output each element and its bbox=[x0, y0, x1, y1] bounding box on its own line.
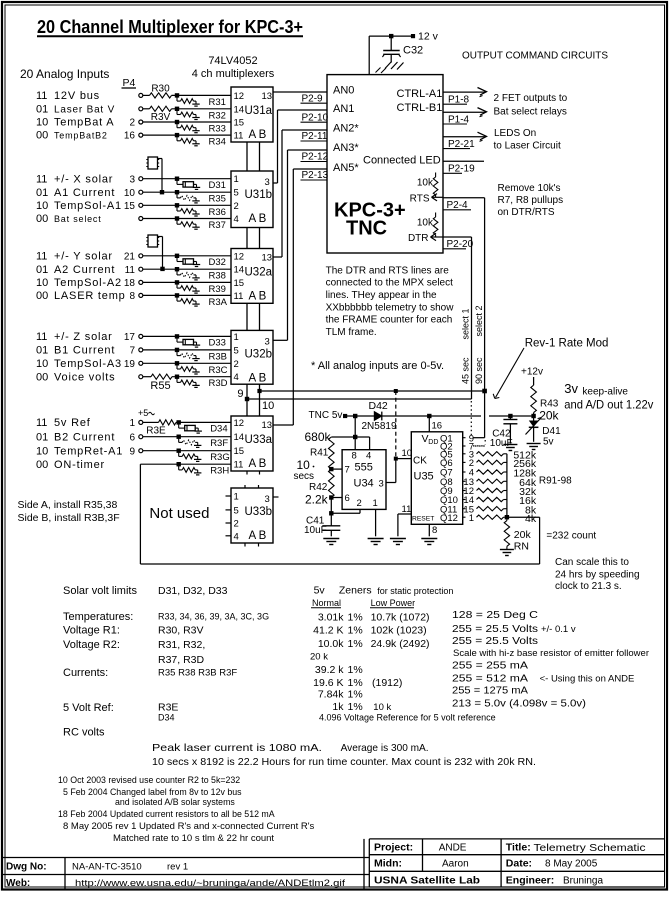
svg-text:R32: R32 bbox=[209, 110, 226, 121]
svg-text:5v Ref: 5v Ref bbox=[54, 417, 91, 429]
input terminal + wire bbox=[139, 93, 231, 98]
svg-text:16: 16 bbox=[432, 421, 443, 432]
svg-text:U31b: U31b bbox=[245, 189, 273, 201]
svg-text:20k: 20k bbox=[539, 409, 559, 423]
ground under C41 bbox=[323, 539, 339, 545]
svg-text:15: 15 bbox=[124, 201, 136, 212]
svg-text:11: 11 bbox=[36, 331, 47, 343]
svg-text:5v: 5v bbox=[314, 585, 326, 597]
svg-text:R3C: R3C bbox=[209, 365, 228, 376]
revision history bbox=[58, 775, 315, 844]
wire CTRL-B1 out / net label P1-4 bbox=[443, 108, 487, 126]
svg-text:102k (1023): 102k (1023) bbox=[371, 625, 427, 637]
svg-text:10.7k (1072): 10.7k (1072) bbox=[371, 612, 430, 624]
svg-text:R3E: R3E bbox=[146, 425, 166, 436]
node: select bus pin 10 junction bbox=[257, 389, 274, 412]
chassis ground under C32 bbox=[376, 62, 404, 74]
svg-text:11: 11 bbox=[234, 291, 244, 302]
title: 20 Channel Multiplexer for KPC-3+ bbox=[37, 17, 303, 37]
svg-text:17: 17 bbox=[124, 332, 136, 343]
svg-text:RESET: RESET bbox=[412, 515, 434, 522]
svg-text:D32: D32 bbox=[209, 257, 226, 268]
svg-text:secs: secs bbox=[294, 471, 315, 482]
wire VDD pin 16 bbox=[427, 414, 442, 432]
svg-text:Title:: Title: bbox=[506, 842, 531, 854]
svg-text:1: 1 bbox=[129, 418, 135, 429]
svg-text:R3G: R3G bbox=[210, 452, 230, 463]
svg-text:Solar volt limits: Solar volt limits bbox=[63, 585, 137, 597]
resistor R38 (x-connect option, shunt) bbox=[175, 267, 226, 282]
input label 11 +/- X solar bbox=[36, 173, 113, 185]
svg-text:2: 2 bbox=[129, 118, 135, 129]
capacitor C42 10uF bbox=[490, 414, 518, 449]
ground under U35 pin 8 bbox=[421, 539, 437, 545]
svg-text:P2-13: P2-13 bbox=[302, 170, 329, 181]
svg-text:R37, R3D: R37, R3D bbox=[158, 654, 205, 666]
svg-text:9: 9 bbox=[237, 388, 243, 400]
svg-text:5 Volt Ref:: 5 Volt Ref: bbox=[63, 702, 114, 714]
svg-text:ANDE: ANDE bbox=[439, 843, 467, 854]
wire CTRL-A1 out / net label P1-8 bbox=[443, 88, 487, 106]
net label P2-13 bbox=[301, 170, 329, 181]
svg-text:R31: R31 bbox=[209, 97, 226, 108]
svg-text:4 ch multiplexers: 4 ch multiplexers bbox=[192, 68, 275, 80]
svg-text:4: 4 bbox=[234, 214, 239, 225]
svg-text:4.096 Voltage Reference for 5: 4.096 Voltage Reference for 5 volt refer… bbox=[319, 713, 496, 723]
svg-text:10: 10 bbox=[36, 445, 48, 457]
svg-text:B2 Current: B2 Current bbox=[54, 431, 115, 443]
note: side A/B install bbox=[18, 499, 120, 524]
input terminal + wire bbox=[139, 203, 231, 207]
svg-text:11: 11 bbox=[36, 173, 47, 185]
svg-text:+5: +5 bbox=[138, 408, 148, 418]
svg-text:2: 2 bbox=[234, 519, 239, 530]
input terminal + wire bbox=[139, 293, 231, 297]
note: DTR and RTS explanation bbox=[326, 265, 455, 338]
title block text bbox=[6, 842, 646, 890]
svg-text:keep-alive: keep-alive bbox=[582, 386, 628, 397]
output Q5 pin 3 bbox=[440, 450, 474, 461]
svg-text:3: 3 bbox=[265, 494, 270, 505]
wire LED out / net label P2-21 bbox=[443, 132, 487, 150]
svg-text:P4: P4 bbox=[123, 77, 136, 89]
svg-text:10 Oct 2003 revised use counte: 10 Oct 2003 revised use counter R2 to 5k… bbox=[58, 775, 240, 785]
resistor R41 680k bbox=[305, 430, 335, 469]
pin label DTR with arrow bbox=[408, 233, 443, 244]
input label 00 ON-timer bbox=[36, 459, 105, 471]
wire Connected LED / net label P2-19 bbox=[443, 161, 484, 174]
svg-text:Rev-1 Rate Mod: Rev-1 Rate Mod bbox=[525, 338, 609, 350]
svg-text:4k: 4k bbox=[525, 513, 537, 525]
label LEDS On / to Laser Circuit bbox=[494, 128, 561, 152]
temp sensor IC (X solar group) bbox=[146, 157, 164, 194]
node R43/D41 bbox=[531, 414, 535, 418]
input label 00 Bat select bbox=[36, 213, 102, 225]
wire U32b pin3 to AN3* bbox=[273, 150, 327, 340]
zener diode D34 (shunt to ground) bbox=[177, 420, 228, 434]
svg-text:7: 7 bbox=[129, 346, 135, 357]
output Q12 pin 1 bbox=[440, 513, 474, 524]
svg-text:00: 00 bbox=[36, 290, 48, 302]
input label 01 B2 Current bbox=[36, 431, 115, 443]
wire U31a pin13 to AN0 bbox=[273, 91, 327, 93]
svg-text:the FRAME counter for each: the FRAME counter for each bbox=[326, 315, 453, 326]
svg-text:12: 12 bbox=[234, 418, 245, 429]
svg-text:rev 1: rev 1 bbox=[167, 862, 188, 873]
wire 555 pin 3 to CK bbox=[386, 459, 411, 483]
svg-text:=232 count: =232 count bbox=[546, 531, 596, 542]
svg-text:U33a: U33a bbox=[245, 434, 273, 446]
wire R42/C41 node to pin 6 bbox=[329, 495, 342, 499]
svg-text:21: 21 bbox=[124, 251, 136, 262]
svg-text:8: 8 bbox=[432, 525, 437, 536]
svg-text:Bat select: Bat select bbox=[54, 214, 102, 224]
svg-text:1%: 1% bbox=[348, 612, 363, 624]
svg-text:8: 8 bbox=[129, 291, 135, 302]
svg-text:TempBatB2: TempBatB2 bbox=[54, 131, 108, 141]
svg-text:1k: 1k bbox=[332, 701, 344, 713]
svg-text:1%: 1% bbox=[348, 664, 363, 676]
svg-text:Peak laser current is 1080 mA.: Peak laser current is 1080 mA. bbox=[152, 742, 322, 754]
svg-text:U31a: U31a bbox=[245, 105, 273, 117]
diode D42 2N5819 bbox=[353, 400, 397, 432]
resistor R91 (512k) bbox=[477, 449, 537, 461]
resistor 20k RN bbox=[504, 517, 531, 552]
svg-text:P2-11: P2-11 bbox=[302, 131, 328, 142]
note: can scale to 24 hrs bbox=[555, 557, 640, 592]
svg-text:10: 10 bbox=[36, 277, 48, 289]
svg-text:12: 12 bbox=[234, 91, 245, 102]
wire RESET pin 11 to ground bbox=[398, 504, 411, 536]
svg-text:10 k: 10 k bbox=[373, 702, 391, 713]
svg-text:20 Analog Inputs: 20 Analog Inputs bbox=[20, 67, 109, 81]
wire U32a pin13 to AN2* bbox=[273, 130, 327, 257]
svg-text:1: 1 bbox=[234, 332, 239, 343]
svg-text:CTRL-B1: CTRL-B1 bbox=[397, 102, 443, 114]
svg-text:74LV4052: 74LV4052 bbox=[208, 55, 257, 67]
svg-text:Connected LED: Connected LED bbox=[363, 155, 441, 167]
svg-text:01: 01 bbox=[36, 431, 48, 443]
svg-text:6: 6 bbox=[129, 432, 135, 443]
resistor R33 (shunt to ground) bbox=[175, 120, 226, 135]
svg-text:11: 11 bbox=[36, 90, 47, 102]
svg-text:TempSol-A2: TempSol-A2 bbox=[54, 277, 122, 289]
svg-text:and A/D out 1.22v: and A/D out 1.22v bbox=[564, 398, 653, 412]
wire 4k output to ON-timer loop bbox=[140, 464, 539, 564]
input label 01 A1 Current bbox=[36, 187, 115, 199]
zener diode D33 (shunt to ground) bbox=[175, 334, 226, 348]
svg-text:10: 10 bbox=[124, 188, 136, 199]
label 2 FET outputs to / Bat select relays bbox=[494, 93, 568, 118]
svg-text:R3V: R3V bbox=[151, 112, 171, 123]
multiplexer U31b bbox=[231, 171, 273, 228]
svg-text:R55: R55 bbox=[150, 380, 170, 392]
svg-text:10: 10 bbox=[36, 200, 48, 212]
input terminal + wire bbox=[139, 217, 231, 221]
label 3v keep-alive bbox=[564, 381, 628, 398]
svg-text:R3F: R3F bbox=[210, 438, 228, 449]
input label 11 +/- Y solar bbox=[36, 250, 113, 262]
svg-text:http://www.ew.usna.edu/~brunin: http://www.ew.usna.edu/~bruninga/ande/AN… bbox=[75, 878, 345, 889]
svg-text:14: 14 bbox=[234, 432, 245, 443]
input terminal + wire bbox=[139, 280, 231, 284]
output Q7 pin 4 bbox=[440, 468, 474, 479]
output Q11 pin 15 bbox=[440, 504, 474, 515]
input label 11 +/- Z solar bbox=[36, 331, 113, 343]
input terminal + wire bbox=[139, 334, 231, 338]
resistor R32 (shunt to ground) bbox=[175, 107, 226, 122]
net label P2-9 bbox=[301, 94, 328, 105]
output Q10 pin 14 bbox=[440, 495, 474, 506]
svg-text:1: 1 bbox=[373, 498, 378, 509]
svg-text:24 hrs by speeding: 24 hrs by speeding bbox=[555, 570, 640, 581]
svg-text:680k: 680k bbox=[305, 430, 332, 444]
svg-text:R3A: R3A bbox=[209, 297, 228, 308]
svg-text:3v: 3v bbox=[564, 381, 578, 396]
svg-text:10: 10 bbox=[36, 117, 48, 129]
svg-text:R41: R41 bbox=[310, 448, 329, 459]
svg-text:Midn:: Midn: bbox=[374, 858, 402, 870]
multiplexer U31a bbox=[231, 87, 273, 142]
output Q6 pin 2 bbox=[440, 458, 474, 469]
svg-text:R39: R39 bbox=[209, 284, 226, 295]
svg-text:R33: R33 bbox=[209, 124, 226, 135]
table: telemetry scaling notes bbox=[452, 609, 649, 710]
note: peak laser current bbox=[152, 742, 536, 768]
svg-text:1%: 1% bbox=[348, 701, 363, 713]
svg-text:10.0k: 10.0k bbox=[318, 638, 344, 650]
svg-text:DD: DD bbox=[428, 439, 438, 446]
svg-text:Voice volts: Voice volts bbox=[54, 371, 115, 383]
svg-text:Normal: Normal bbox=[312, 598, 341, 608]
svg-text:00: 00 bbox=[36, 213, 48, 225]
svg-text:255 = 1275 mA: 255 = 1275 mA bbox=[452, 685, 528, 697]
resistor R93 (128k) bbox=[477, 468, 537, 480]
svg-text:8 May 2005 rev 1 Updated R': 8 May 2005 rev 1 Updated R's and x-conne… bbox=[63, 821, 315, 832]
svg-text:TNC: TNC bbox=[346, 218, 387, 240]
svg-text:255 = 512 mA: 255 = 512 mA bbox=[452, 673, 528, 685]
svg-text:D42: D42 bbox=[369, 400, 388, 412]
svg-text:clock to 21.3 s.: clock to 21.3 s. bbox=[555, 581, 622, 592]
svg-text:Can scale this to: Can scale this to bbox=[555, 557, 629, 568]
svg-text:XXbbbbbb telemetry to show: XXbbbbbb telemetry to show bbox=[326, 302, 455, 313]
resistor R95 (32k) bbox=[477, 486, 537, 498]
resistor R39 (shunt to ground) bbox=[175, 280, 226, 295]
svg-text:AN5*: AN5* bbox=[333, 162, 359, 174]
svg-text:select 1: select 1 bbox=[460, 308, 470, 339]
svg-text:Zeners: Zeners bbox=[339, 585, 372, 597]
svg-text:01: 01 bbox=[36, 264, 48, 276]
input label 11 5v Ref bbox=[36, 417, 91, 429]
svg-text:01: 01 bbox=[36, 345, 48, 357]
svg-text:16: 16 bbox=[124, 131, 136, 142]
input terminal + wire bbox=[139, 133, 231, 137]
svg-text:18: 18 bbox=[124, 278, 136, 289]
output Q2 pin 7 bbox=[440, 442, 474, 453]
svg-text:7.84k: 7.84k bbox=[318, 689, 344, 701]
svg-text:R35 R38 R3B R3F: R35 R38 R3B R3F bbox=[158, 668, 237, 679]
resistor R3A (shunt to ground) bbox=[175, 293, 228, 308]
wire ON-timer loop to pin 11 bbox=[140, 463, 231, 465]
svg-text:10uF: 10uF bbox=[304, 525, 327, 536]
svg-text:R3B: R3B bbox=[209, 351, 227, 362]
svg-text:Project:: Project: bbox=[374, 842, 413, 854]
svg-text:R31, R32,: R31, R32, bbox=[158, 639, 205, 651]
svg-text:3: 3 bbox=[379, 479, 384, 490]
resistor R97 (8k) bbox=[477, 504, 537, 516]
svg-text:19: 19 bbox=[124, 359, 136, 370]
ground under C42 bbox=[503, 445, 517, 451]
svg-text:AB: AB bbox=[249, 372, 269, 384]
resistor R37 (shunt to ground) bbox=[175, 216, 226, 231]
svg-text:R34: R34 bbox=[209, 137, 226, 148]
output Q1 pin 9 bbox=[440, 433, 474, 444]
temp sensor IC (Y solar group) bbox=[146, 235, 164, 271]
svg-text:4: 4 bbox=[234, 372, 239, 383]
svg-text:8: 8 bbox=[352, 451, 357, 462]
svg-text:10: 10 bbox=[262, 400, 274, 412]
U33b unused pin stubs bbox=[226, 485, 279, 547]
svg-text:5v: 5v bbox=[543, 436, 554, 447]
svg-text:AN2*: AN2* bbox=[333, 123, 359, 135]
svg-text:AN0: AN0 bbox=[333, 85, 354, 97]
svg-text:213 = 5.0v (4.098v = 5.0v): 213 = 5.0v (4.098v = 5.0v) bbox=[452, 698, 586, 710]
svg-text:Not used: Not used bbox=[149, 505, 209, 522]
svg-text:Bruninga: Bruninga bbox=[563, 876, 603, 887]
svg-text:19.6 K: 19.6 K bbox=[313, 677, 343, 689]
svg-text:D33: D33 bbox=[209, 338, 226, 349]
wire R41/R42 node to pin 7 bbox=[329, 467, 342, 471]
input terminal + wire bbox=[139, 361, 231, 365]
input terminal + wire bbox=[139, 374, 231, 379]
resistor R94 (64k) bbox=[477, 477, 537, 489]
svg-text:Matched rate to 10 s tlm & 22: Matched rate to 10 s tlm & 22 hr count bbox=[113, 833, 274, 844]
svg-text:24.9k (2492): 24.9k (2492) bbox=[371, 638, 430, 650]
wire TNC top to 12v bbox=[369, 36, 412, 75]
svg-text:Side A, install R35,38: Side A, install R35,38 bbox=[18, 499, 118, 511]
svg-text:Voltage R2:: Voltage R2: bbox=[63, 639, 120, 651]
svg-text:R30, R3V: R30, R3V bbox=[158, 625, 204, 637]
svg-text:12: 12 bbox=[234, 251, 245, 262]
input label 10 TempBat A bbox=[36, 117, 114, 129]
svg-text:9: 9 bbox=[129, 446, 135, 457]
svg-text:1%: 1% bbox=[348, 689, 363, 701]
svg-text:5: 5 bbox=[234, 505, 239, 516]
input terminal + wire bbox=[139, 435, 231, 439]
resistor R96 (16k) bbox=[477, 495, 537, 507]
svg-text:12 v: 12 v bbox=[418, 31, 439, 43]
svg-text:10: 10 bbox=[36, 358, 48, 370]
wire select bus 2 (RTS) bbox=[260, 389, 487, 394]
svg-text:13: 13 bbox=[262, 253, 273, 264]
wire 5v rail bbox=[345, 415, 534, 417]
capacitor C32 bbox=[382, 34, 423, 63]
input terminal + wire bbox=[139, 267, 231, 271]
svg-text:14: 14 bbox=[234, 104, 245, 115]
resistor 10k DTR pullup bbox=[417, 213, 438, 238]
svg-text:R36: R36 bbox=[209, 207, 226, 218]
svg-text:15: 15 bbox=[234, 118, 245, 129]
input label 11 12V bus bbox=[36, 90, 100, 102]
capacitor C41 10uF bbox=[304, 498, 340, 537]
svg-text:00: 00 bbox=[36, 371, 48, 383]
svg-text:13: 13 bbox=[262, 420, 273, 431]
svg-text:connected to the MPX select: connected to the MPX select bbox=[326, 278, 454, 289]
svg-text:10k: 10k bbox=[417, 178, 434, 189]
svg-text:255 = 25.5 Volts: 255 = 25.5 Volts bbox=[452, 623, 538, 635]
input label 00 LASER temp bbox=[36, 290, 126, 302]
svg-text:555: 555 bbox=[355, 462, 373, 474]
label Remove 10k's R7,R8 pullups bbox=[498, 183, 564, 218]
connector P4 label bbox=[122, 77, 137, 89]
pin label RTS with arrow bbox=[410, 194, 443, 205]
resistor R43 20k from +12v bbox=[531, 377, 560, 423]
svg-text:00: 00 bbox=[36, 130, 48, 142]
svg-text:R30: R30 bbox=[151, 84, 170, 95]
input label 10 TempRet-A1 bbox=[36, 445, 123, 457]
svg-text:10k: 10k bbox=[417, 218, 434, 229]
resistor R42 2.2k bbox=[305, 469, 334, 506]
IC U34 555 timer bbox=[342, 450, 386, 510]
svg-text:AB: AB bbox=[249, 291, 269, 303]
multiplexer U32a bbox=[231, 249, 273, 304]
dashed rate-mod wire (bus to CK) bbox=[394, 389, 398, 461]
IC U-TNC KPC-3+ TNC box bbox=[327, 75, 443, 253]
svg-text:and isolated A/B solar systems: and isolated A/B solar systems bbox=[115, 797, 235, 807]
svg-text:Laser Bat V: Laser Bat V bbox=[54, 104, 115, 115]
resistor R3C (shunt to ground) bbox=[175, 361, 228, 376]
input terminal + wire bbox=[139, 348, 231, 352]
svg-text:AB: AB bbox=[249, 213, 269, 225]
svg-text:D34: D34 bbox=[158, 713, 175, 723]
svg-text:13: 13 bbox=[262, 91, 273, 102]
svg-text:Aaron: Aaron bbox=[442, 859, 469, 870]
svg-text:TempBat A: TempBat A bbox=[54, 117, 114, 129]
svg-text:U35: U35 bbox=[414, 471, 434, 483]
svg-text:7: 7 bbox=[345, 465, 350, 476]
svg-text:Scale with hi-z base resistor: Scale with hi-z base resistor of emitter… bbox=[453, 648, 649, 658]
svg-text:TempSol-A1: TempSol-A1 bbox=[54, 200, 122, 212]
svg-text:R37: R37 bbox=[209, 220, 226, 231]
svg-text:LEDS On: LEDS On bbox=[494, 128, 536, 139]
svg-text:R38: R38 bbox=[209, 271, 226, 282]
wire 555 pin 2 to C41 node bbox=[331, 509, 360, 513]
svg-text:A2 Current: A2 Current bbox=[54, 264, 115, 276]
wire 5v to 555 pins 8,4 bbox=[331, 416, 369, 450]
svg-text:lines. THey appear in the: lines. THey appear in the bbox=[326, 290, 437, 301]
svg-text:1%: 1% bbox=[348, 625, 363, 637]
svg-text:11: 11 bbox=[125, 265, 136, 276]
svg-text:on DTR/RTS: on DTR/RTS bbox=[498, 207, 555, 218]
svg-text:CTRL-A1: CTRL-A1 bbox=[397, 88, 443, 100]
dotted mod wire from select1 corner bbox=[471, 401, 485, 446]
svg-text:R7, R8 pullups: R7, R8 pullups bbox=[498, 195, 564, 206]
svg-text:Side B, install R3B,3F: Side B, install R3B,3F bbox=[18, 512, 120, 524]
svg-text:20 k: 20 k bbox=[310, 652, 328, 663]
resistor R34 (shunt to ground) bbox=[175, 133, 226, 148]
svg-text:TNC 5v: TNC 5v bbox=[309, 410, 343, 421]
svg-text:R3D: R3D bbox=[209, 378, 228, 389]
svg-text:U33b: U33b bbox=[245, 506, 273, 518]
svg-text:U32b: U32b bbox=[245, 348, 273, 360]
svg-text:2.2k: 2.2k bbox=[305, 493, 329, 507]
zener diode D31 (shunt to ground) bbox=[175, 177, 226, 191]
svg-text:1%: 1% bbox=[348, 677, 363, 689]
label Rev-1 Rate Mod with pointer bbox=[493, 338, 608, 399]
net label P2-10 bbox=[301, 113, 329, 124]
svg-text:DTR: DTR bbox=[408, 233, 429, 244]
svg-text:1: 1 bbox=[234, 174, 239, 185]
